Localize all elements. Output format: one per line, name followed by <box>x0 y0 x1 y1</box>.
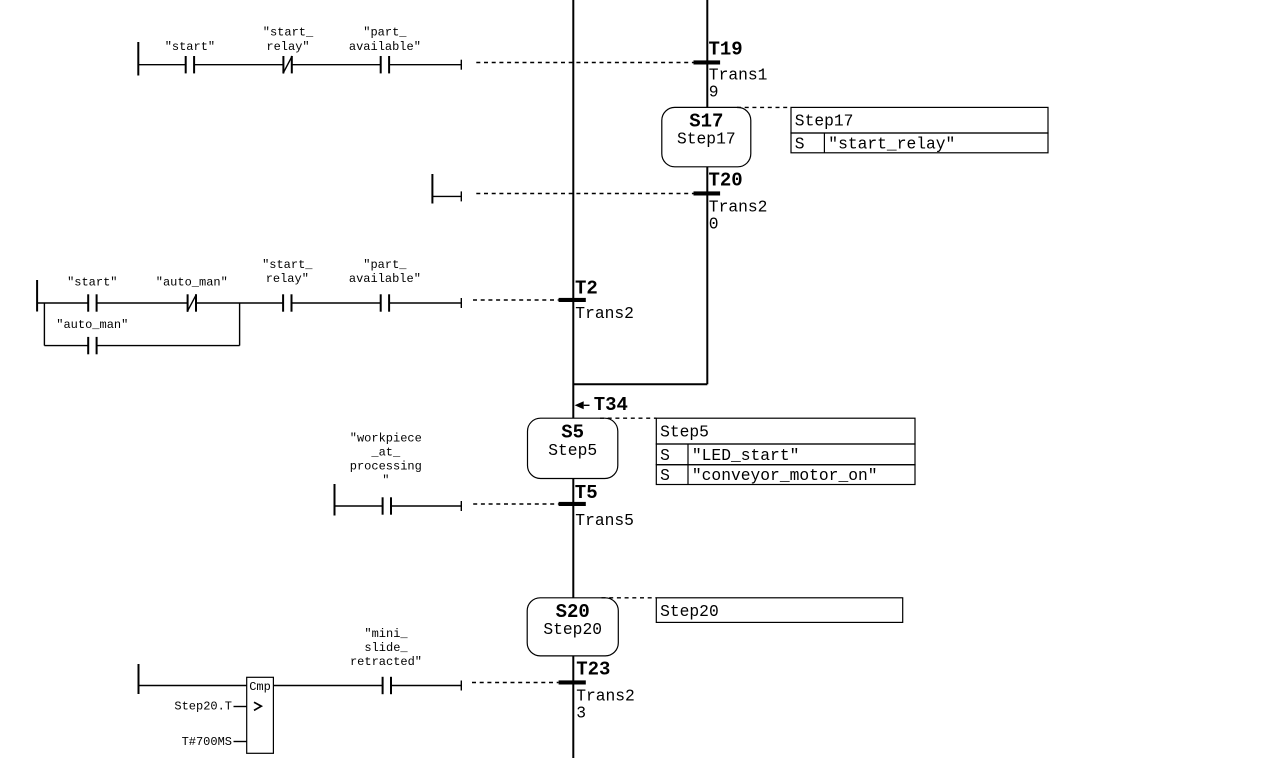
svg-text:Step20: Step20 <box>543 620 602 639</box>
wire branch merge horizontal <box>573 383 707 385</box>
action table S17 row1 divider <box>823 133 825 153</box>
wire main sequence vertical line (middle segment) <box>572 479 574 598</box>
action table S5 row2 divider <box>687 465 689 485</box>
svg-text:T#700MS: T#700MS <box>182 735 232 749</box>
svg-text:S: S <box>660 446 670 465</box>
svg-text:S: S <box>660 466 670 485</box>
svg-text:processing: processing <box>350 460 422 474</box>
action table S17 header <box>791 107 1048 133</box>
wire stub T20 <box>432 195 461 197</box>
svg-text:"start_relay": "start_relay" <box>828 134 955 153</box>
svg-text:T23: T23 <box>576 659 610 681</box>
wire dashed connector rung3 to T5 <box>473 503 558 505</box>
wire rung2 end tick <box>460 298 462 308</box>
svg-text:"auto_man": "auto_man" <box>56 318 128 332</box>
step S20 box <box>527 598 618 656</box>
svg-text:Step5: Step5 <box>660 423 709 442</box>
svg-text:"LED_start": "LED_start" <box>692 446 799 465</box>
action table S20 header <box>656 598 902 623</box>
contact "start" rung1 <box>165 40 215 73</box>
power rail rung3 <box>334 484 336 516</box>
svg-text:Trans2: Trans2 <box>575 304 634 323</box>
svg-text:": " <box>382 474 389 488</box>
wire rung4 segment a <box>139 685 247 687</box>
svg-text:Step5: Step5 <box>548 441 597 460</box>
wire comparator input2 <box>234 741 247 743</box>
svg-text:"start_: "start_ <box>262 258 313 272</box>
wire dotted link S20 to action table <box>602 597 657 599</box>
wire rung2 segment a <box>37 302 88 304</box>
svg-text:T20: T20 <box>709 170 743 192</box>
wire comparator input1 <box>234 706 247 708</box>
transition T20 bar <box>694 191 721 195</box>
wire rung2 segment d <box>292 302 381 304</box>
transition T2 bar <box>559 298 586 302</box>
wire rung1 segment b <box>194 64 283 66</box>
svg-text:9: 9 <box>709 83 719 102</box>
step S5 box <box>528 418 618 478</box>
svg-text:"workpiece: "workpiece <box>350 432 422 446</box>
svg-text:3: 3 <box>576 704 586 723</box>
svg-text:"part_: "part_ <box>363 258 407 272</box>
wire stub T20 end tick <box>460 191 462 201</box>
svg-text:Step17: Step17 <box>795 112 854 131</box>
wire parallel branch bottom segment a <box>44 345 88 347</box>
transition T23 bar <box>559 680 586 684</box>
wire main sequence vertical line (top segment) <box>572 0 574 418</box>
transition T19 bar <box>694 60 721 64</box>
power rail stub T20 <box>431 174 433 204</box>
contact "part_available" rung2 <box>349 258 421 312</box>
svg-text:available": available" <box>349 272 421 286</box>
power rail rung4 <box>138 664 140 694</box>
svg-text:"auto_man": "auto_man" <box>156 276 228 290</box>
svg-text:"conveyor_motor_on": "conveyor_motor_on" <box>692 466 878 485</box>
svg-text:Trans5: Trans5 <box>575 511 634 530</box>
wire parallel branch right riser <box>239 303 241 346</box>
svg-text:"start_: "start_ <box>263 26 314 40</box>
wire dashed connector rung2 to T2 <box>473 299 559 301</box>
wire dashed connector rung4 to T23 <box>472 682 559 684</box>
contact "part_available" rung1 <box>349 26 421 74</box>
step S17 box <box>662 107 751 166</box>
svg-text:Step20.T: Step20.T <box>174 699 232 713</box>
contact "start_relay" rung2 <box>262 258 313 312</box>
action table S5 header <box>656 418 915 444</box>
action table S5 row1 divider <box>687 444 689 465</box>
wire rung3 segment a <box>335 505 383 507</box>
comparator operator > <box>254 702 261 710</box>
contact "auto_man" branch <box>56 318 128 354</box>
wire branch vertical line (top segment) <box>706 0 708 107</box>
svg-text:Step20: Step20 <box>660 602 719 621</box>
wire rung1 segment a <box>138 64 185 66</box>
wire dashed connector rung1 to T19 <box>476 62 693 64</box>
svg-text:T5: T5 <box>575 482 598 504</box>
svg-text:Cmp: Cmp <box>249 680 271 694</box>
wire dotted link S5 to action table <box>600 417 656 419</box>
power rail rung2 <box>36 280 38 312</box>
wire parallel branch bottom segment b <box>97 345 240 347</box>
contact NC "start_relay" rung1 <box>263 26 314 74</box>
wire rung3 segment b <box>391 505 461 507</box>
svg-text:S: S <box>795 134 805 153</box>
svg-text:relay": relay" <box>266 272 309 286</box>
svg-text:T34: T34 <box>594 394 628 416</box>
action table S17 row1 <box>791 133 1048 153</box>
svg-text:retracted": retracted" <box>350 655 422 669</box>
wire rung2 segment c <box>196 302 283 304</box>
wire rung4 end tick <box>460 681 462 691</box>
wire parallel branch left drop <box>43 303 45 346</box>
svg-text:_at_: _at_ <box>370 446 401 460</box>
comparator box Cmp <box>247 677 274 753</box>
svg-text:Trans2: Trans2 <box>576 686 635 705</box>
svg-text:relay": relay" <box>266 40 309 54</box>
svg-text:"part_: "part_ <box>363 26 407 40</box>
wire dotted link S17 to action table <box>737 106 791 108</box>
svg-text:available": available" <box>349 40 421 54</box>
svg-text:slide_: slide_ <box>364 641 408 655</box>
action table S5 row2 <box>656 465 915 485</box>
contact "mini_slide_retracted" rung4 <box>350 627 422 694</box>
transition T5 bar <box>559 502 586 506</box>
contact NC "auto_man" rung2 <box>156 276 228 312</box>
svg-text:T2: T2 <box>575 277 598 299</box>
wire rung2 segment e <box>389 302 461 304</box>
contact "workpiece_at_processing" rung3 <box>350 432 422 515</box>
jump target arrow T34 <box>575 401 590 409</box>
svg-text:"start": "start" <box>165 40 215 54</box>
wire rung4 segment b <box>273 685 382 687</box>
action table S5 row1 <box>656 444 915 465</box>
wire dashed connector stub to T20 <box>476 193 693 195</box>
contact "start" rung2 <box>67 276 117 312</box>
wire rung1 end tick <box>460 60 462 70</box>
power rail rung1 <box>137 42 139 76</box>
wire rung2 segment b <box>97 302 188 304</box>
svg-text:"start": "start" <box>67 276 117 290</box>
svg-text:Step17: Step17 <box>677 130 736 149</box>
svg-text:0: 0 <box>709 215 719 234</box>
wire rung4 segment c <box>391 685 461 687</box>
svg-text:T19: T19 <box>709 39 743 61</box>
wire rung1 segment c <box>292 64 381 66</box>
wire branch vertical line (lower segment) <box>706 167 708 384</box>
wire rung1 segment d <box>389 64 461 66</box>
svg-text:"mini_: "mini_ <box>364 627 408 641</box>
wire rung3 end tick <box>460 501 462 511</box>
wire main sequence vertical line (bottom segment) <box>572 656 574 758</box>
